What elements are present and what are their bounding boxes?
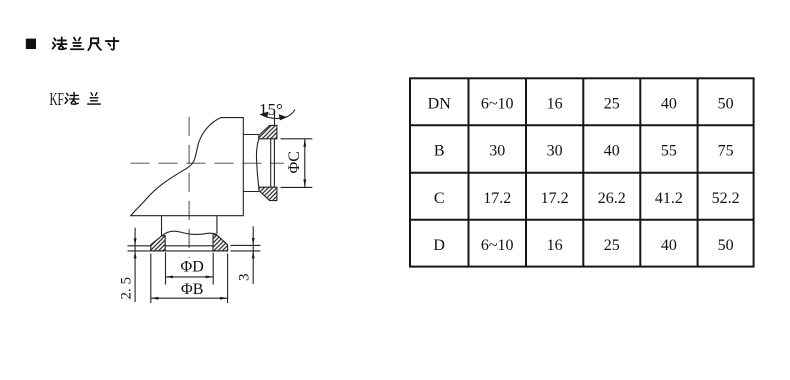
svg-text:40: 40 <box>661 237 677 254</box>
svg-text:41.2: 41.2 <box>655 190 683 207</box>
svg-text:17.2: 17.2 <box>483 190 511 207</box>
svg-text:D: D <box>433 237 445 254</box>
svg-text:16: 16 <box>547 237 563 254</box>
svg-text:15°: 15° <box>259 100 283 119</box>
svg-text:3: 3 <box>236 274 252 282</box>
svg-text:17.2: 17.2 <box>541 190 569 207</box>
svg-text:B: B <box>434 143 445 160</box>
svg-text:50: 50 <box>718 96 734 113</box>
svg-text:ΦC: ΦC <box>286 151 303 173</box>
svg-text:DN: DN <box>428 96 452 113</box>
svg-text:40: 40 <box>661 96 677 113</box>
svg-text:6~10: 6~10 <box>481 96 514 113</box>
svg-text:50: 50 <box>718 237 734 254</box>
svg-text:C: C <box>434 190 445 207</box>
svg-text:6~10: 6~10 <box>481 237 514 254</box>
svg-text:2. 5: 2. 5 <box>119 277 135 300</box>
svg-text:25: 25 <box>604 96 620 113</box>
svg-text:52.2: 52.2 <box>712 190 740 207</box>
svg-text:75: 75 <box>718 143 734 160</box>
svg-text:KF: KF <box>50 90 64 109</box>
svg-text:30: 30 <box>547 143 563 160</box>
svg-text:25: 25 <box>604 237 620 254</box>
svg-text:ΦB: ΦB <box>181 281 203 298</box>
svg-text:ΦD: ΦD <box>181 259 204 276</box>
svg-text:30: 30 <box>489 143 505 160</box>
svg-text:40: 40 <box>604 143 620 160</box>
svg-text:16: 16 <box>547 96 563 113</box>
svg-text:26.2: 26.2 <box>598 190 626 207</box>
svg-text:55: 55 <box>661 143 677 160</box>
